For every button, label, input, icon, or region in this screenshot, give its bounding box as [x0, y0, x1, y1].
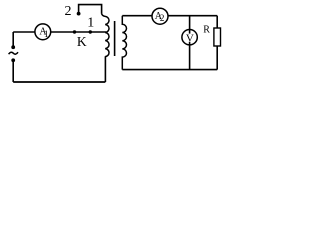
ammeter A2: [152, 8, 168, 24]
svg-text:2: 2: [65, 4, 72, 19]
svg-text:1: 1: [87, 16, 94, 31]
transformer core: [114, 21, 116, 56]
node: terminal 2 dot: [77, 12, 81, 16]
secondary coil L2: [122, 16, 126, 70]
wire: voltmeter branch upper: [189, 16, 191, 34]
wire: riser from bottom wire to primary coil bottom: [104, 56, 106, 82]
wire: left-loop top wire from source to primary tap: [13, 31, 106, 33]
wire: left vertical upper segment: [12, 32, 14, 46]
ammeter A1: [35, 24, 51, 40]
primary coil L1: [102, 14, 109, 57]
wire: left-loop bottom wire: [13, 81, 105, 83]
node: source bottom terminal dot: [11, 58, 15, 62]
node: source top terminal dot: [11, 45, 15, 49]
switch K dots: [73, 30, 76, 33]
resistor R: [214, 28, 221, 46]
svg-text:1: 1: [44, 29, 49, 39]
svg-text:R: R: [203, 24, 210, 35]
svg-text:V: V: [186, 33, 194, 45]
svg-text:2: 2: [160, 13, 165, 23]
wire: voltmeter branch lower: [189, 42, 191, 70]
wire: right-loop bottom wire: [122, 69, 217, 71]
wire: right side upper segment: [216, 16, 218, 28]
wire: right-loop top wire: [122, 15, 217, 17]
wire: terminal 2 to primary coil top: [79, 5, 102, 14]
voltmeter V: [182, 30, 197, 45]
svg-text:K: K: [77, 34, 87, 49]
wire: right side lower segment: [216, 46, 218, 70]
AC source tilde: [9, 52, 18, 54]
wire: left vertical lower segment: [12, 62, 14, 83]
